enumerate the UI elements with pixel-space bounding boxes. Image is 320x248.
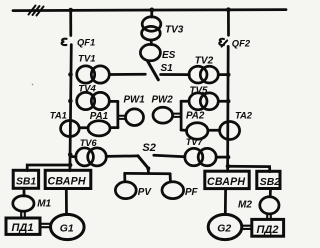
wire left feeder main (70, 45, 71, 171)
wire TV6 to S2 (106, 155, 138, 158)
svg-text:TA2: TA2 (235, 109, 253, 120)
wire bar to PA2 (181, 129, 187, 132)
svg-text:ПД2: ПД2 (257, 224, 279, 236)
wire right feeder main (226, 46, 229, 171)
wire TV1 to S1 (110, 73, 146, 76)
svg-text:TV1: TV1 (78, 53, 96, 64)
svg-text:СВАРН: СВАРН (207, 176, 245, 188)
wire right feeder upper (227, 10, 230, 36)
node TV1 tap (68, 72, 73, 77)
svg-text:PF: PF (185, 187, 199, 198)
shaft M2 to PD2 (double) (267, 214, 271, 219)
wire right branch to SB2 (228, 166, 270, 171)
wire TV2 to right feeder (218, 73, 228, 76)
wire PW2 to bar (double link) (173, 114, 180, 117)
breaker QF1 (62, 39, 67, 45)
node TV5 tap (226, 99, 231, 104)
welding box CBAPH right (205, 171, 249, 188)
ammeter PA2 (187, 123, 208, 140)
bus break hatch (29, 6, 44, 16)
transformer TV7 (185, 148, 216, 165)
wire TA1 to PA1 (79, 126, 88, 129)
earthing switch ES (140, 40, 160, 61)
breaker QF2 (219, 39, 227, 47)
svg-text:G1: G1 (60, 223, 74, 234)
wire PA1 to bar (111, 126, 118, 129)
motor M1 (13, 196, 34, 212)
transformer TV5 (189, 93, 218, 110)
svg-text:M1: M1 (37, 198, 51, 209)
node S2 junction (146, 166, 150, 170)
wire left feeder upper (69, 10, 72, 36)
svg-text:TA1: TA1 (50, 109, 67, 120)
svg-text:S2: S2 (142, 142, 155, 154)
ammeter PA1 (88, 121, 110, 136)
wire SB2 to M2 (269, 189, 272, 197)
wire right metering bar (180, 101, 183, 130)
current transformer TA2 (220, 122, 240, 140)
wire TV7 to right feeder (216, 156, 228, 159)
svg-text:TV3: TV3 (165, 24, 184, 35)
button box SB2 (257, 171, 280, 188)
button box SB1 (13, 170, 38, 188)
wire CBAPH to G2 (224, 189, 227, 215)
transformer TV6 (76, 148, 107, 166)
wire S2 junction to meters harness (125, 168, 171, 182)
svg-text:TV6: TV6 (80, 138, 98, 148)
node TV7 tap (226, 155, 231, 160)
svg-text:S1: S1 (161, 63, 174, 74)
wattmeter PW2 (153, 107, 173, 123)
svg-text:PW1: PW1 (124, 94, 145, 105)
svg-text:TV5: TV5 (190, 86, 209, 97)
wattmeter PW1 (126, 109, 144, 126)
transformer TV2 (189, 66, 218, 83)
svg-text:PA1: PA1 (90, 111, 108, 122)
svg-text:СВАРН: СВАРН (48, 175, 86, 187)
svg-text:QF1: QF1 (77, 36, 95, 47)
paper speck (32, 84, 34, 86)
svg-text:TV2: TV2 (195, 56, 214, 67)
shaft G2 to PD2 (double) (242, 226, 252, 229)
shaft M1 to PD1 (double) (21, 212, 25, 218)
svg-text:G2: G2 (217, 223, 231, 234)
node right branch tap (226, 164, 231, 169)
node left branch tap (68, 163, 73, 168)
wire PA2 to TA2 (208, 129, 220, 132)
svg-text:SB2: SB2 (260, 177, 280, 188)
wire SB1 to M1 (23, 189, 26, 196)
switch S2 blade (138, 156, 148, 168)
svg-text:M2: M2 (238, 200, 252, 211)
svg-text:PW2: PW2 (152, 95, 174, 106)
junction bus-TV3 (149, 8, 154, 13)
drive box PD2 (252, 219, 284, 236)
wire TV5 to right feeder (218, 100, 228, 103)
switch S1 blade (148, 62, 158, 80)
wire TV4 to bar (110, 100, 118, 103)
wire S1 to TV2 (161, 73, 190, 76)
wire bar to PW1 (double link) (119, 116, 126, 119)
svg-text:ES: ES (162, 50, 176, 61)
wire left branch to SB1 (27, 165, 70, 171)
generator G1 (51, 214, 85, 239)
svg-text:ПД1: ПД1 (12, 222, 34, 234)
transformer TV4 (77, 92, 110, 109)
svg-text:TV7: TV7 (186, 137, 204, 147)
welding box CBAPH left (45, 170, 91, 188)
node TV6 tap (68, 152, 73, 157)
junction bus-left feeder (68, 8, 73, 13)
wire S2 to TV7 (154, 155, 185, 157)
bus bar (top busbar) (13, 10, 286, 11)
drive box PD1 (6, 218, 40, 234)
wire left metering bar (116, 101, 119, 127)
voltmeter PV (115, 182, 136, 199)
frequency meter PF (162, 182, 184, 199)
svg-text:PA2: PA2 (186, 111, 205, 122)
wire TV5 to right bar (181, 100, 189, 103)
svg-text:PV: PV (138, 187, 153, 198)
generator G2 (208, 214, 242, 239)
wire feeder to TV6 (70, 155, 76, 158)
svg-text:TV4: TV4 (78, 83, 96, 94)
node TV4 tap (68, 99, 73, 104)
transformer TV3 (142, 10, 161, 40)
node TV2 tap (226, 72, 231, 77)
shaft PD1 to G1 (double) (40, 224, 50, 227)
transformer TV1 (77, 66, 110, 83)
motor M2 (260, 197, 279, 214)
current transformer TA1 (61, 121, 80, 137)
svg-text:QF2: QF2 (232, 38, 251, 49)
svg-text:SB1: SB1 (16, 176, 36, 187)
junction bus-right feeder (226, 7, 231, 12)
wire CBAPH to G1 (65, 189, 68, 215)
